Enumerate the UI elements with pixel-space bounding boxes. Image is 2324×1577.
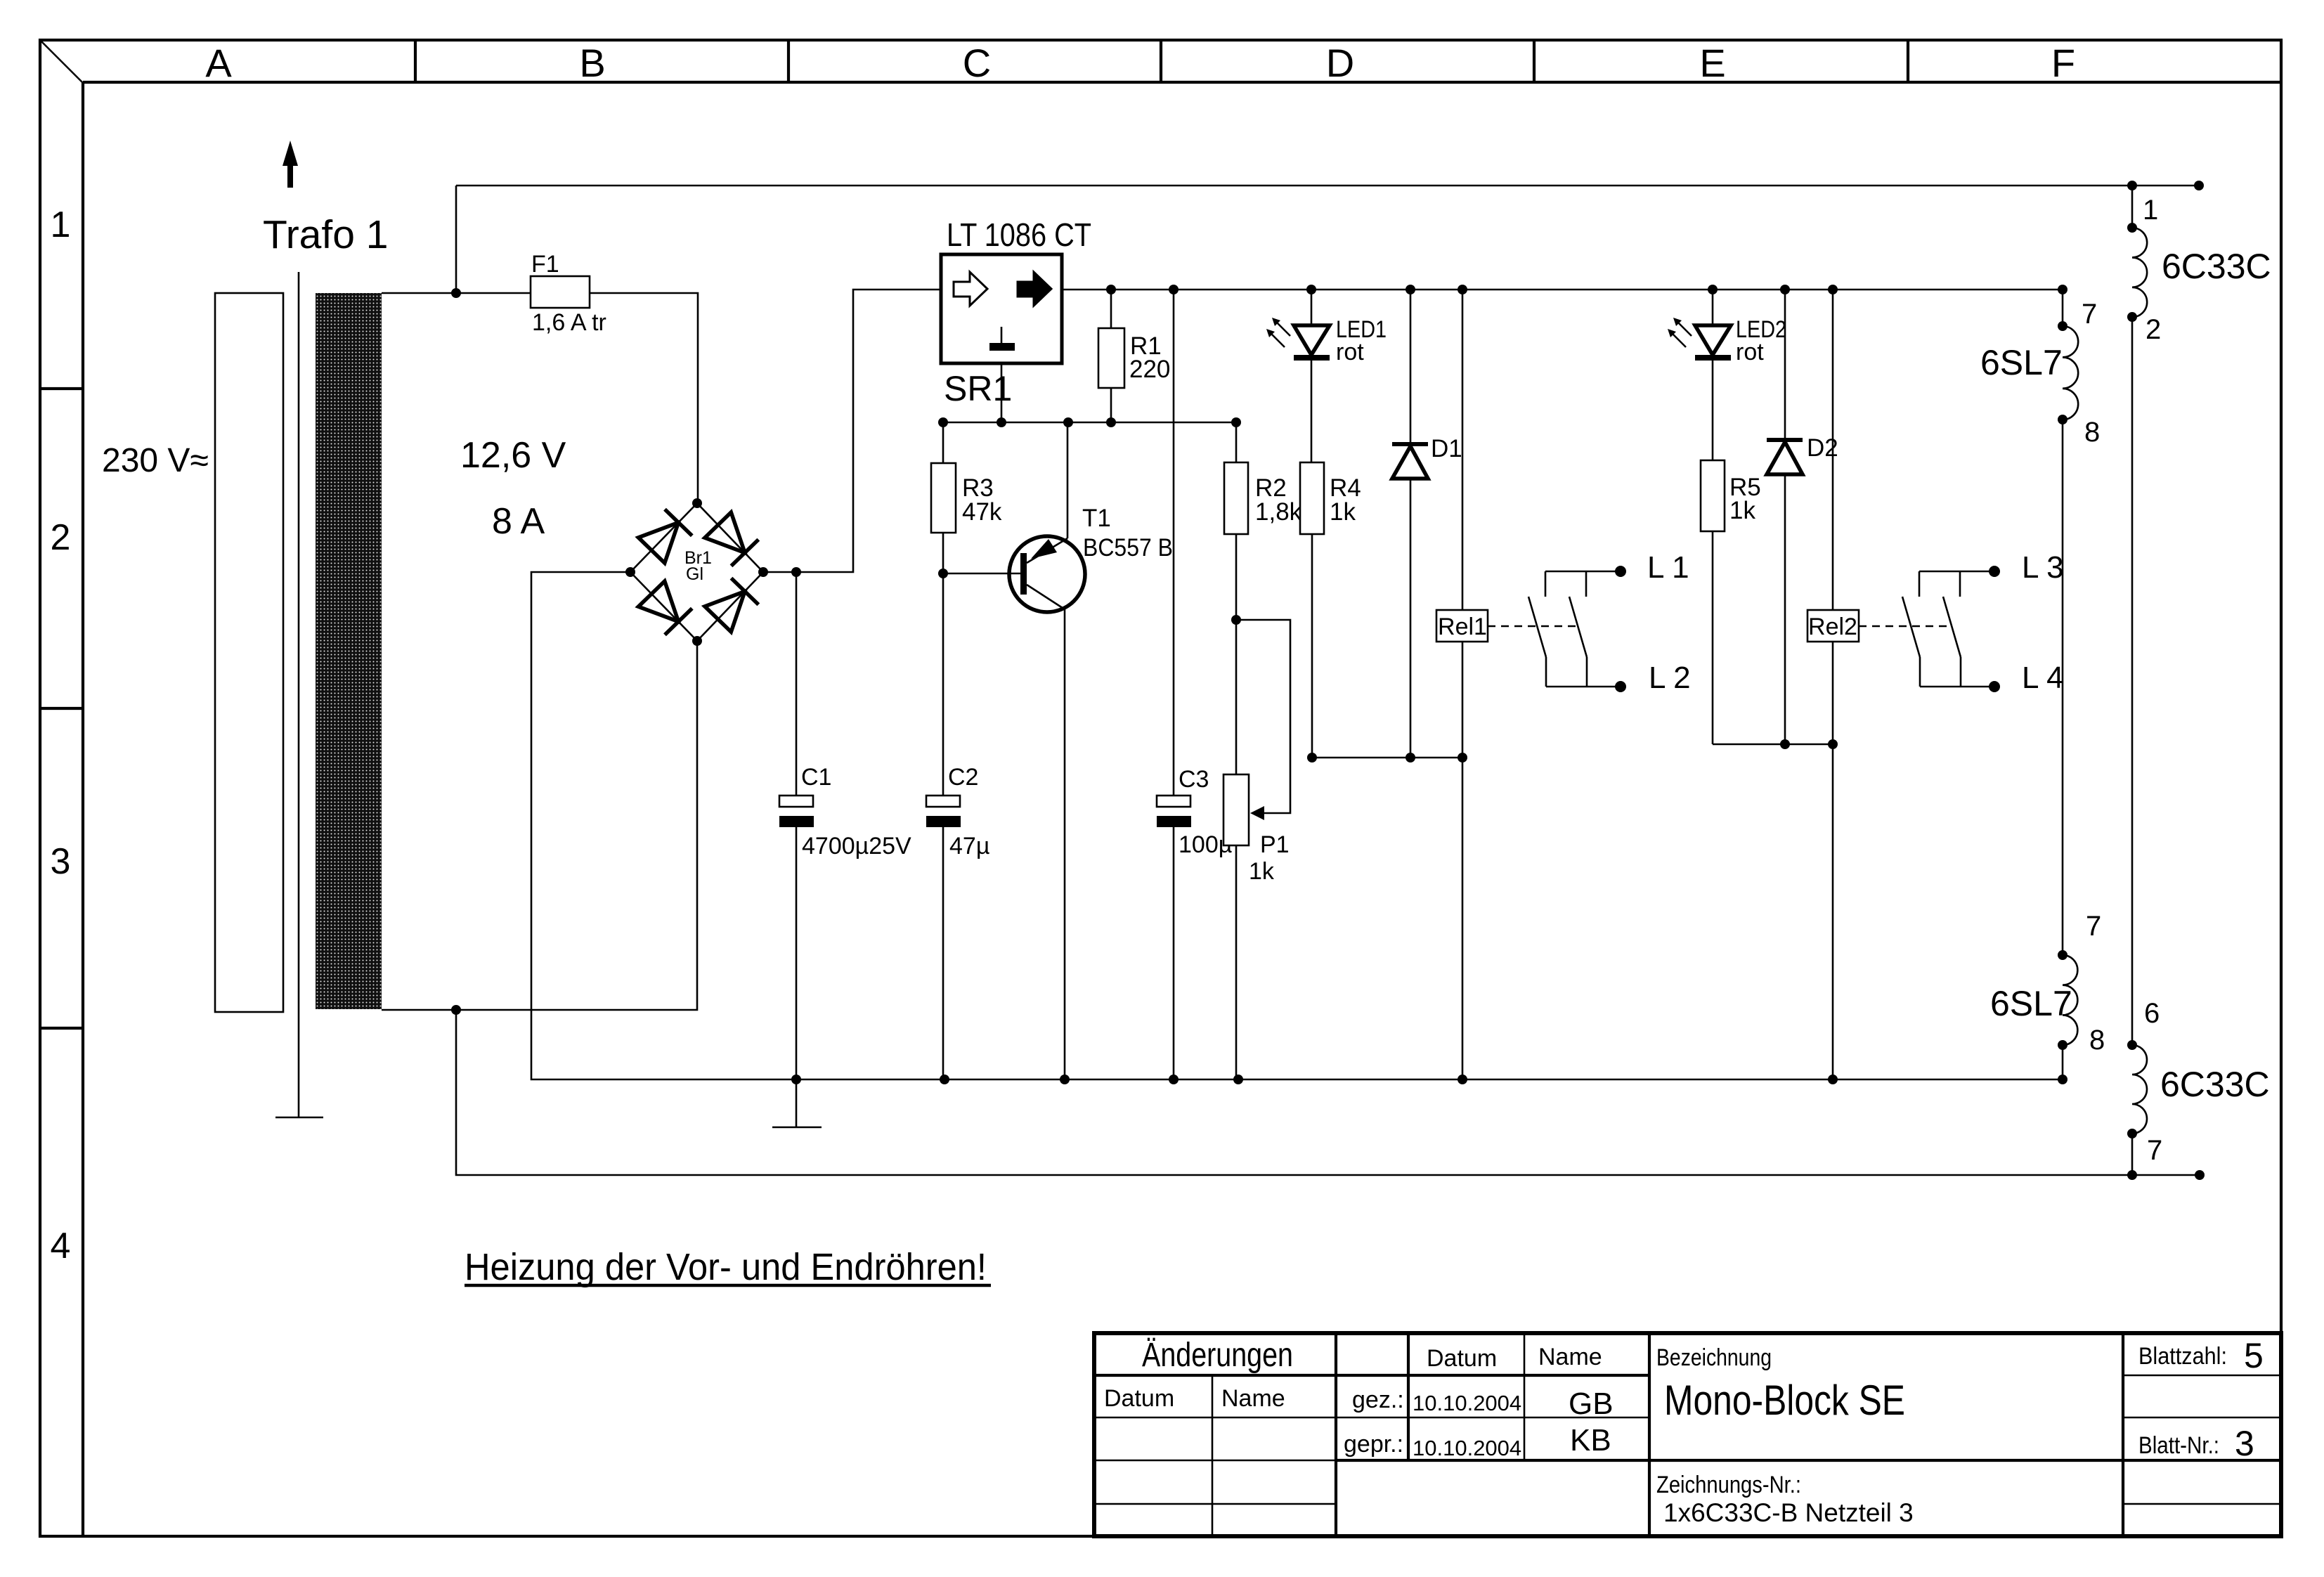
svg-text:L 1: L 1 xyxy=(1647,550,1689,585)
svg-text:gez.:: gez.: xyxy=(1352,1387,1404,1413)
fuse F1 xyxy=(531,276,590,308)
node D1 bottom xyxy=(1406,753,1415,762)
svg-text:6C33C: 6C33C xyxy=(2162,247,2271,286)
resistor R3 xyxy=(931,422,956,573)
svg-text:3: 3 xyxy=(51,841,71,882)
transistor Q T1 BC557B xyxy=(1009,536,1085,612)
node R1 top rail xyxy=(1106,285,1116,294)
capacitor C3 xyxy=(1157,290,1191,1079)
node collector ground xyxy=(1060,1075,1070,1084)
bridge diode bottom-right xyxy=(705,578,758,632)
transformer core earth bar xyxy=(275,1117,323,1119)
wire riser to top rail xyxy=(455,186,457,293)
svg-text:12,6 V: 12,6 V xyxy=(460,435,566,476)
svg-text:rot: rot xyxy=(1336,339,1364,365)
svg-text:C1: C1 xyxy=(801,764,831,791)
Rel1 dashed link xyxy=(1488,625,1576,628)
svg-text:47k: 47k xyxy=(962,498,1002,526)
wire ground rail xyxy=(796,1079,2063,1081)
P1 wiper wire xyxy=(1236,620,1290,820)
svg-text:8: 8 xyxy=(2084,417,2100,448)
Rel2 dashed link xyxy=(1859,625,1947,628)
svg-text:1: 1 xyxy=(51,205,71,245)
relay coil Rel1 xyxy=(1436,290,1488,758)
heater coil 6SL7 lower xyxy=(2063,955,2077,1045)
svg-text:Rel2: Rel2 xyxy=(1808,614,1857,640)
Rel2 contact group xyxy=(1902,571,1994,687)
node secondary bottom junction xyxy=(451,1005,461,1015)
node Rel2 rail xyxy=(1828,285,1838,294)
svg-text:B: B xyxy=(579,41,605,85)
node Rel1 bottom xyxy=(1458,753,1467,762)
node D2 bottom xyxy=(1780,739,1790,749)
resistor R1 xyxy=(1098,290,1124,422)
wire T1 base xyxy=(943,573,1023,575)
svg-text:C3: C3 xyxy=(1179,766,1209,793)
diode D1 xyxy=(1392,290,1428,758)
svg-text:3: 3 xyxy=(2235,1424,2254,1463)
svg-text:Name: Name xyxy=(1221,1385,1285,1412)
wire 6C33C series link xyxy=(2131,317,2134,1045)
node bridge bottom vertex xyxy=(692,636,702,646)
svg-text:230 V≈: 230 V≈ xyxy=(102,442,209,479)
svg-text:1x6C33C-B Netzteil 3: 1x6C33C-B Netzteil 3 xyxy=(1663,1498,1914,1527)
node 6SL7 pin 8 lower xyxy=(2058,1040,2067,1050)
svg-text:Blattzahl:: Blattzahl: xyxy=(2138,1343,2227,1370)
svg-text:F: F xyxy=(2051,41,2075,85)
svg-text:D1: D1 xyxy=(1431,435,1462,462)
svg-text:7: 7 xyxy=(2086,911,2101,942)
potentiometer P1 xyxy=(1223,774,1249,1079)
bridge diode top-left xyxy=(638,510,692,563)
svg-text:Rel1: Rel1 xyxy=(1438,614,1487,640)
svg-text:gepr.:: gepr.: xyxy=(1344,1431,1403,1458)
svg-text:6SL7: 6SL7 xyxy=(1980,343,2063,382)
resistor R4 xyxy=(1300,462,1324,758)
wire T1 emitter to ADJ rail xyxy=(1067,422,1069,538)
svg-text:10.10.2004: 10.10.2004 xyxy=(1413,1391,1521,1415)
LED LED1 xyxy=(1294,290,1330,462)
svg-text:Trafo 1: Trafo 1 xyxy=(263,212,388,257)
heater coil 6C33C lower xyxy=(2132,1045,2147,1134)
node top rail right end xyxy=(2194,181,2204,190)
node bottom rail junction xyxy=(2127,1170,2137,1180)
node D2 rail xyxy=(1780,285,1790,294)
node Rel2 ground xyxy=(1828,1075,1838,1084)
svg-text:47µ: 47µ xyxy=(949,833,989,859)
svg-text:5: 5 xyxy=(2244,1336,2264,1375)
heater coil 6SL7 upper xyxy=(2063,326,2078,420)
svg-text:6: 6 xyxy=(2144,998,2160,1029)
ground symbol xyxy=(772,1079,822,1127)
node C2 ground xyxy=(940,1075,949,1084)
node C3 ground xyxy=(1169,1075,1179,1084)
svg-text:Heizung der Vor- und Endröhren: Heizung der Vor- und Endröhren! xyxy=(465,1246,987,1288)
wire ADJ rail xyxy=(943,422,1236,424)
wire bridge minus to ground rail xyxy=(531,572,796,1079)
svg-text:E: E xyxy=(1699,41,1725,85)
node bridge right vertex xyxy=(758,567,768,577)
svg-text:4700µ25V: 4700µ25V xyxy=(802,833,911,859)
node 6C33C pin 1 xyxy=(2127,223,2137,233)
svg-text:6C33C: 6C33C xyxy=(2160,1065,2270,1104)
node L4 terminal xyxy=(1989,681,2000,692)
column grid dividers xyxy=(40,40,1908,1028)
node bridge top vertex xyxy=(692,498,702,508)
svg-text:2: 2 xyxy=(2146,314,2161,345)
wire rail corner down to 6SL7 xyxy=(2062,290,2064,326)
wire regulator ADJ pin xyxy=(1001,363,1003,422)
transformer secondary winding xyxy=(316,293,382,1009)
svg-text:LT 1086 CT: LT 1086 CT xyxy=(947,216,1091,253)
wire regulator output rail xyxy=(1062,289,2061,291)
svg-text:1,6 A tr: 1,6 A tr xyxy=(532,309,606,336)
node T1 emitter rail xyxy=(1063,417,1073,427)
capacitor C2 xyxy=(926,573,961,1079)
node D1 rail xyxy=(1406,285,1415,294)
wire relay rail 2 xyxy=(1713,744,1833,746)
wire 6C33C to bottom rail xyxy=(2131,1134,2134,1175)
svg-text:D: D xyxy=(1326,41,1354,85)
wire 6SL7 to ground rail end xyxy=(2062,1045,2064,1079)
node 6C33C pin 2 xyxy=(2127,312,2137,322)
node 6SL7 pin 7 upper xyxy=(2058,321,2067,331)
wire bridge plus to regulator input xyxy=(763,290,941,572)
regulator output arrow (solid) xyxy=(1018,272,1051,306)
svg-text:P1: P1 xyxy=(1260,831,1290,858)
svg-text:4: 4 xyxy=(51,1226,71,1266)
node R2 P1 junction xyxy=(1231,615,1241,625)
diode D2 xyxy=(1767,290,1803,744)
svg-text:L 3: L 3 xyxy=(2022,550,2064,585)
node R2 top xyxy=(1231,417,1241,427)
svg-text:1k: 1k xyxy=(1330,498,1356,526)
svg-text:8: 8 xyxy=(2089,1025,2105,1056)
wire secondary top to fuse xyxy=(382,292,531,294)
transformer primary winding xyxy=(215,293,283,1012)
svg-text:10.10.2004: 10.10.2004 xyxy=(1413,1436,1521,1460)
resistor R5 xyxy=(1701,460,1725,744)
svg-text:220: 220 xyxy=(1129,356,1170,383)
capacitor C1 xyxy=(779,572,814,1079)
svg-text:Mono-Block SE: Mono-Block SE xyxy=(1664,1377,1905,1424)
svg-text:7: 7 xyxy=(2082,299,2097,330)
svg-text:L 2: L 2 xyxy=(1649,661,1691,695)
node R3 top xyxy=(938,417,948,427)
svg-text:1: 1 xyxy=(2143,195,2158,226)
node ADJ pin xyxy=(997,417,1006,427)
node secondary top junction xyxy=(451,288,461,298)
node 6SL7 pin 8 upper xyxy=(2058,415,2067,424)
wire Rel1 to ground rail xyxy=(1462,758,1464,1079)
svg-text:1k: 1k xyxy=(1729,497,1755,524)
node 6C33C top rail junction xyxy=(2127,181,2137,190)
node bridge left vertex xyxy=(625,567,635,577)
LED LED2 xyxy=(1695,290,1731,460)
wire Rel2 to ground rail xyxy=(1832,744,1834,1079)
bridge diode top-right xyxy=(705,512,758,566)
node L3 terminal xyxy=(1989,566,2000,577)
regulator input arrow (outline) xyxy=(954,272,987,306)
node C3 top rail xyxy=(1169,285,1179,294)
Rel1 contact group xyxy=(1528,571,1621,687)
wire secondary bottom to bottom rail xyxy=(456,1010,2200,1175)
node 6SL7 feed corner xyxy=(2058,285,2067,294)
svg-text:BC557 B: BC557 B xyxy=(1083,534,1173,562)
svg-text:KB: KB xyxy=(1570,1423,1611,1458)
wire 6SL7 series link xyxy=(2062,420,2064,955)
svg-text:1,8k: 1,8k xyxy=(1255,498,1302,526)
svg-text:F1: F1 xyxy=(531,251,559,278)
svg-text:rot: rot xyxy=(1736,339,1764,365)
svg-text:C2: C2 xyxy=(948,764,978,791)
wire relay rail 1 xyxy=(1312,757,1462,759)
resistor R2 xyxy=(1224,422,1248,774)
svg-text:A: A xyxy=(205,41,232,85)
svg-text:C: C xyxy=(963,41,991,85)
heater coil 6C33C upper xyxy=(2132,228,2147,317)
svg-text:Änderungen: Änderungen xyxy=(1142,1337,1293,1374)
regulator ground mark xyxy=(989,327,1015,351)
svg-text:Bezeichnung: Bezeichnung xyxy=(1656,1344,1772,1371)
node ground rail end xyxy=(2058,1075,2067,1084)
node Rel1 ground xyxy=(1458,1075,1467,1084)
svg-text:Datum: Datum xyxy=(1427,1345,1497,1372)
svg-text:L 4: L 4 xyxy=(2022,661,2064,695)
transformer phase arrow xyxy=(283,141,298,188)
relay coil Rel2 xyxy=(1807,290,1859,744)
bridge diode bottom-left xyxy=(638,581,692,635)
bridge rectifier Br1 diamond xyxy=(630,503,763,641)
wire top heater rail xyxy=(456,185,2199,187)
svg-text:Blatt-Nr.:: Blatt-Nr.: xyxy=(2138,1432,2219,1459)
svg-text:Gl: Gl xyxy=(686,564,703,584)
svg-text:6SL7: 6SL7 xyxy=(1990,984,2072,1023)
svg-text:2: 2 xyxy=(51,517,71,558)
transformer core xyxy=(298,272,300,1117)
svg-text:8 A: 8 A xyxy=(492,501,545,542)
svg-text:7: 7 xyxy=(2147,1135,2162,1166)
node 6C33C pin 7 xyxy=(2127,1129,2137,1138)
title block frame xyxy=(1094,1333,2281,1536)
node L2 terminal xyxy=(1615,681,1626,692)
node 6SL7 pin 7 lower xyxy=(2058,950,2067,960)
node LED2 rail xyxy=(1708,285,1718,294)
wire T1 collector to ground rail xyxy=(1064,609,1066,1079)
node bottom rail right end xyxy=(2195,1170,2205,1180)
wire bridge bottom to secondary bottom xyxy=(382,641,697,1010)
node Rel2 bottom xyxy=(1828,739,1838,749)
LED1 light arrows xyxy=(1266,318,1290,347)
node R1 bottom xyxy=(1106,417,1116,427)
regulator U SR1 LT1086 box xyxy=(941,254,1062,363)
node L1 terminal xyxy=(1615,566,1626,577)
node C1 branch xyxy=(791,567,801,577)
LED2 light arrows xyxy=(1668,318,1692,347)
svg-text:Name: Name xyxy=(1538,1344,1602,1370)
node 6C33C pin 6 xyxy=(2127,1040,2137,1050)
wire fuse to bridge top xyxy=(590,293,698,503)
node Rel1 rail xyxy=(1458,285,1467,294)
node C1 ground xyxy=(791,1075,801,1084)
svg-text:Datum: Datum xyxy=(1104,1385,1174,1412)
svg-text:GB: GB xyxy=(1569,1387,1614,1421)
wire 6C33C pin1 drop xyxy=(2131,186,2134,228)
node T1 base xyxy=(938,569,948,578)
svg-text:Zeichnungs-Nr.:: Zeichnungs-Nr.: xyxy=(1656,1472,1801,1498)
svg-text:1k: 1k xyxy=(1249,858,1275,885)
node LED1 rail xyxy=(1306,285,1316,294)
node P1 ground xyxy=(1233,1075,1243,1084)
node R4 bottom xyxy=(1307,753,1317,762)
svg-text:T1: T1 xyxy=(1082,505,1111,532)
